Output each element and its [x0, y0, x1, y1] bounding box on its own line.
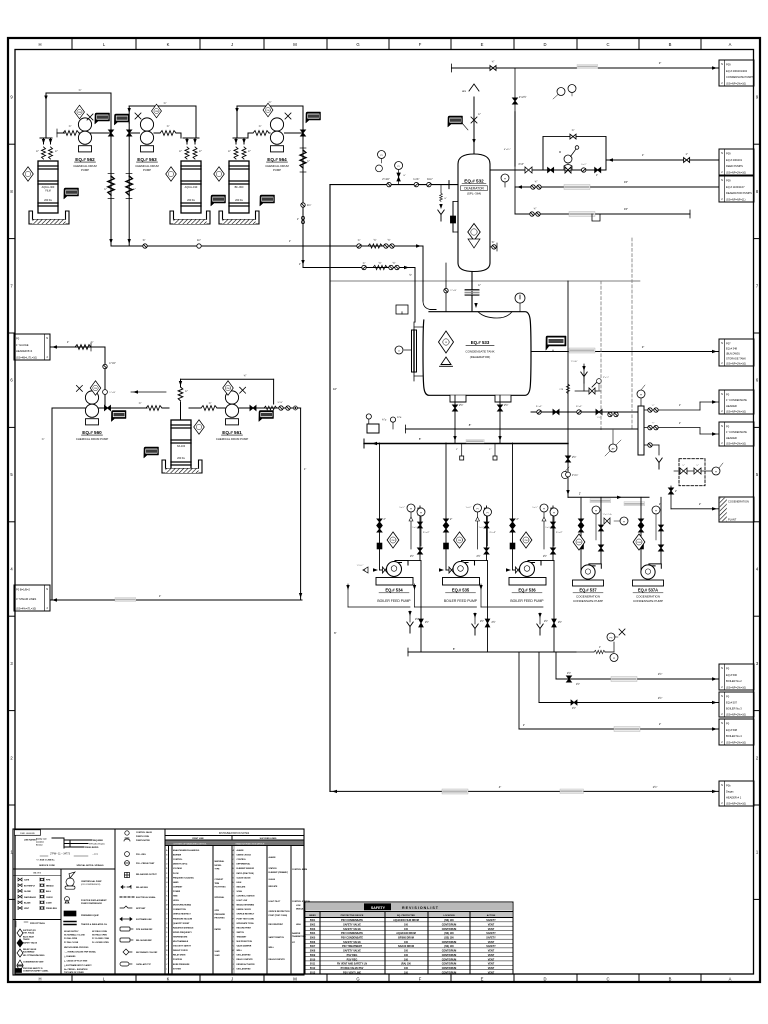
- svg-text:¾"⌀: ¾"⌀: [397, 416, 402, 419]
- svg-text:SAFETY VALVE: SAFETY VALVE: [343, 941, 361, 944]
- svg-text:MIDDLE: MIDDLE: [296, 909, 304, 911]
- svg-text:¼": ¼": [36, 150, 39, 153]
- svg-text:F: F: [419, 976, 422, 981]
- svg-text:HEADER # 1: HEADER # 1: [726, 796, 742, 800]
- pipe: drum NA100 hose: [180, 402, 182, 420]
- svg-text:(SS) 100: (SS) 100: [444, 932, 454, 935]
- svg-text:(SS) 100: (SS) 100: [444, 919, 454, 922]
- tag pump564: [306, 112, 321, 123]
- off-page connector: boiler no.2: [719, 664, 754, 690]
- svg-text:5001: 5001: [310, 919, 316, 922]
- svg-text:⅜": ⅜": [143, 240, 146, 242]
- svg-text:¾": ¾": [244, 375, 247, 378]
- svg-text:1": 1": [489, 449, 491, 451]
- svg-text:CURRENT: CURRENT: [173, 886, 183, 888]
- tag pump561: [259, 411, 274, 422]
- svg-text:200 lbs: 200 lbs: [44, 199, 53, 202]
- hazard diamond pump563: [152, 104, 162, 118]
- off-page connector: cogeneration plant: [719, 497, 754, 522]
- svg-text:RELAY/COMPUTE: RELAY/COMPUTE: [269, 958, 286, 961]
- tag pump560: [112, 411, 127, 422]
- svg-text:2": 2": [517, 518, 519, 521]
- svg-text:EQ.# 532: EQ.# 532: [464, 179, 484, 184]
- recirc loop EQ.# 535: [414, 584, 416, 607]
- drum pump EQ.# 564: [270, 118, 283, 144]
- svg-text:1": 1": [679, 404, 681, 407]
- svg-text:POSITIVE DISPLACEMENT: POSITIVE DISPLACEMENT: [81, 899, 107, 902]
- svg-text:NO AIR SUPPLY: NO AIR SUPPLY: [64, 930, 79, 933]
- svg-text:TEMPERATURE: TEMPERATURE: [173, 935, 188, 938]
- svg-text:BOILER FEED PUMP: BOILER FEED PUMP: [510, 599, 544, 603]
- svg-text:4": 4": [499, 785, 501, 789]
- svg-text:SAFETY: SAFETY: [486, 932, 496, 935]
- pipe: vertical to steam line header: [297, 407, 300, 409]
- svg-text:100: 100: [404, 950, 409, 953]
- svg-text:5004: 5004: [310, 932, 316, 935]
- svg-text:¾": ¾": [307, 160, 310, 163]
- svg-text:COGENERATION: COGENERATION: [728, 500, 749, 504]
- svg-text:H: H: [38, 976, 41, 981]
- svg-text:¾": ¾": [167, 125, 170, 128]
- svg-text:¾": ¾": [358, 239, 361, 242]
- svg-text:ANALYSIS/MISCELLANEOUS: ANALYSIS/MISCELLANEOUS: [173, 849, 200, 852]
- svg-text:(SPL–364): (SPL–364): [467, 192, 481, 196]
- svg-text:G: G: [356, 976, 359, 981]
- svg-text:ORIFICE RESTRICT: ORIFICE RESTRICT: [173, 914, 191, 916]
- svg-text:2": 2": [450, 518, 452, 521]
- svg-text:Degas: Degas: [726, 790, 734, 794]
- pipe: chem injection line y246: [111, 245, 423, 247]
- svg-text:¾": ¾": [363, 262, 366, 265]
- pipe: riser from manifold to y281 line: [567, 281, 569, 497]
- svg-text:(SS=NP=2%=10): (SS=NP=2%=10): [726, 362, 746, 366]
- svg-text:AQUA–190: AQUA–190: [185, 186, 198, 189]
- svg-text:L: L: [166, 900, 167, 902]
- svg-text:P0: P0: [726, 695, 730, 699]
- svg-text:GLOBE: GLOBE: [24, 891, 31, 893]
- svg-text:M: M: [559, 151, 561, 154]
- svg-text:(SS=NP=2%=10): (SS=NP=2%=10): [726, 741, 746, 745]
- svg-text:FIRST LINE: FIRST LINE: [192, 838, 204, 840]
- pipe: lower leg EQ.# 535: [487, 561, 489, 653]
- svg-text:(SS=4B=L/TL=10): (SS=4B=L/TL=10): [16, 356, 37, 360]
- deaerator level standpipe: [452, 202, 454, 233]
- svg-text:CENTRIFUGAL PUMP: CENTRIFUGAL PUMP: [81, 880, 102, 883]
- vessel EQ532 deaerator: [458, 154, 490, 272]
- svg-text:FLOW: FLOW: [173, 873, 179, 875]
- svg-text:P0b: P0b: [726, 784, 731, 788]
- svg-text:SAFETY VALVE: SAFETY VALVE: [343, 950, 361, 953]
- tag drum3: [260, 195, 275, 206]
- drum pump EQ.# 561: [225, 391, 238, 417]
- svg-text:CONT/DRUM: CONT/DRUM: [442, 924, 457, 927]
- tag drum1: [64, 188, 79, 199]
- svg-text:DIFFERENTIAL: DIFFERENTIAL: [237, 863, 251, 866]
- pipe: discharge riser EQ.# 534: [408, 560, 420, 562]
- svg-text:N: N: [721, 666, 723, 670]
- svg-text:BF/800 DRUM: BF/800 DRUM: [398, 937, 414, 940]
- hazard diamond pump562: [75, 105, 85, 119]
- svg-text:5007: 5007: [310, 945, 316, 948]
- tag deaerator vent: [448, 116, 463, 127]
- svg-text:SAFETY/SWITCH: SAFETY/SWITCH: [269, 936, 285, 939]
- svg-text:PUMP: PUMP: [81, 168, 89, 172]
- pipe: thin line y281: [330, 280, 640, 282]
- svg-text:2": 2": [523, 724, 525, 727]
- svg-text:P09: P09: [726, 152, 731, 156]
- svg-text:1¼×1": 1¼×1": [576, 405, 583, 408]
- pipe: group2 suction w dampener: [154, 132, 160, 134]
- svg-text:EQ.# 200/201/202: EQ.# 200/201/202: [726, 69, 748, 73]
- pipe: tank bottom nozzle 2: [499, 395, 501, 443]
- svg-text:¾": ¾": [572, 129, 575, 132]
- svg-text:SWITCH: SWITCH: [237, 932, 245, 934]
- svg-text:PLANT: PLANT: [728, 518, 737, 522]
- svg-text:BOILER No.2: BOILER No.2: [726, 679, 742, 683]
- grid reference band ticks and labels: [72, 38, 701, 982]
- svg-text:N: N: [46, 587, 48, 591]
- svg-text:RATIO (FRACTION): RATIO (FRACTION): [237, 872, 255, 875]
- svg-text:AQUA/190 DRUM: AQUA/190 DRUM: [396, 932, 416, 935]
- hazard diamond pump561: [223, 381, 234, 395]
- svg-text:PRESSURE VACUUM: PRESSURE VACUUM: [173, 917, 193, 920]
- hazard diamond drum NA100: [194, 420, 205, 434]
- svg-text:No. PRESS L: ELEVATION: No. PRESS L: ELEVATION: [64, 968, 88, 971]
- hazard diamond pump560: [90, 381, 101, 395]
- off-page connector: deaerator pumps: [719, 176, 754, 202]
- svg-text:CONT/DRUM: CONT/DRUM: [442, 958, 457, 961]
- svg-text:5008: 5008: [310, 950, 316, 953]
- svg-text:⅜": ⅜": [444, 198, 447, 200]
- svg-text:MOISTURE (HUMID): MOISTURE (HUMID): [173, 905, 191, 907]
- svg-text:CONDENSATE PUMPS: CONDENSATE PUMPS: [726, 75, 754, 79]
- svg-text:CONSERVATION VENT: CONSERVATION VENT: [23, 961, 44, 964]
- gauge between cogen pumps: [614, 520, 620, 522]
- svg-text:¾": ¾": [259, 125, 262, 128]
- svg-text:6": 6": [334, 631, 337, 635]
- pipe: elbow to cogen pumps: [566, 456, 571, 462]
- svg-text:VENT: VENT: [24, 908, 30, 910]
- svg-text:1": 1": [159, 594, 161, 598]
- deaerator PI gauge left: [378, 151, 386, 159]
- svg-text:BLDG HEAT: BLDG HEAT: [23, 935, 35, 938]
- svg-text:P0: P0: [726, 722, 730, 726]
- svg-text:EQ.# 536: EQ.# 536: [518, 588, 536, 593]
- svg-text:N: N: [721, 424, 723, 428]
- svg-text:TRACE: TRACE: [23, 938, 30, 941]
- svg-text:ORIFICE RESTRICTION: ORIFICE RESTRICTION: [269, 911, 291, 913]
- riser x129 group2 to injection line: [128, 123, 130, 246]
- tank level transmitter: [404, 349, 412, 351]
- svg-text:TRACED & INSULATED OIL: TRACED & INSULATED OIL: [81, 923, 108, 926]
- svg-text:SAFETY: SAFETY: [486, 937, 496, 940]
- svg-text:RELAY DRIVE: RELAY DRIVE: [173, 954, 186, 957]
- pipe: group1 suction w dampener: [57, 132, 65, 134]
- dashed verticals right: [600, 281, 602, 430]
- svg-text:INDEX: INDEX: [309, 915, 316, 917]
- svg-text:RELIEF VALVE: RELIEF VALVE: [23, 948, 37, 951]
- svg-text:UNCLASSIFIED: UNCLASSIFIED: [237, 954, 252, 957]
- svg-text:NC NORMALLY CLOSE: NC NORMALLY CLOSE: [64, 934, 86, 937]
- svg-text:¾"Ⅲ: ¾"Ⅲ: [559, 388, 564, 391]
- hazard diamond EQ.# 537A: [633, 534, 645, 550]
- svg-text:TRANSMIT: TRANSMIT: [237, 935, 248, 938]
- svg-text:15": 15": [624, 180, 628, 184]
- off-page connector: feed pumps: [719, 149, 754, 175]
- svg-text:SETPOINT: SETPOINT: [136, 908, 146, 910]
- svg-text:5006: 5006: [310, 941, 316, 944]
- svg-text:SCAN: SCAN: [237, 890, 243, 893]
- off-page connector: condensate pumps (top right): [719, 60, 754, 86]
- svg-text:USERS CHOICE: USERS CHOICE: [237, 909, 252, 911]
- svg-text:N: N: [721, 783, 723, 787]
- svg-text:BORE PRESSURE: BORE PRESSURE: [173, 964, 190, 966]
- tank saddles: [450, 395, 511, 402]
- off-page connector: boiler no.4: [719, 719, 754, 745]
- off-page connector: condensate header 2: [719, 422, 754, 446]
- svg-text:¼": ¼": [248, 150, 251, 153]
- svg-text:¾": ¾": [78, 88, 81, 92]
- svg-text:SAFETY: SAFETY: [371, 906, 386, 910]
- svg-text:1" CONDENSATE: 1" CONDENSATE: [726, 398, 747, 402]
- svg-text:BLADE: BLADE: [24, 902, 31, 905]
- hazard diamond EQ.# 537: [573, 534, 585, 550]
- svg-text:CONT/DRUM: CONT/DRUM: [442, 950, 457, 953]
- svg-text:PSV CONDENSATE: PSV CONDENSATE: [341, 937, 363, 940]
- svg-text:NO FIELD OPEN: NO FIELD OPEN: [92, 935, 107, 937]
- svg-text:(BLN.DWD): (BLN.DWD): [726, 352, 740, 356]
- svg-text:(SS=NP=2%=10): (SS=NP=2%=10): [726, 713, 746, 717]
- svg-text:FILM: FILM: [45, 191, 50, 193]
- svg-text:SAFETY VALVE: SAFETY VALVE: [23, 942, 38, 945]
- svg-text:L: L: [233, 900, 234, 902]
- svg-text:CONTROL: CONTROL: [237, 859, 247, 861]
- pump EQ.# 537A: [641, 564, 661, 579]
- svg-text:EQ.# 563: EQ.# 563: [137, 157, 157, 162]
- svg-text:|—•| EDGE OF PLOT ITEM: |—•| EDGE OF PLOT ITEM: [64, 961, 88, 963]
- svg-text:PSV—PRESS POINT: PSV—PRESS POINT: [136, 863, 155, 865]
- deaerator internal spray diamond: [468, 224, 480, 241]
- svg-text:J: J: [233, 891, 234, 893]
- svg-text:OTH. FIELD): OTH. FIELD): [23, 933, 35, 935]
- svg-text:DENSITY (SP.G): DENSITY (SP.G): [173, 864, 188, 866]
- svg-text:STORAGE TANK: STORAGE TANK: [726, 357, 746, 361]
- drum pump EQ.# 562: [78, 118, 91, 144]
- drum EQ562 AQUA-300: [38, 161, 58, 213]
- deaerator bottom right nozzle: [490, 246, 497, 248]
- svg-text:PRESSURE: PRESSURE: [215, 914, 226, 916]
- containment basin 3: [219, 211, 259, 224]
- svg-text:C: C: [606, 976, 609, 981]
- svg-text:N: N: [721, 341, 723, 345]
- off-page connector: gauge header (left): [14, 334, 50, 360]
- svg-text:HIGH: HIGH: [296, 924, 301, 926]
- strainer assembly above manifold: [583, 364, 585, 376]
- pipe: sample line to cogeneration plant: [671, 508, 719, 510]
- legend: instrument symbol list column: [120, 831, 134, 966]
- svg-text:FL LOCKED OPEN: FL LOCKED OPEN: [92, 942, 109, 944]
- svg-text:ELECTRICAL SIGNAL: ELECTRICAL SIGNAL: [136, 896, 156, 899]
- svg-text:¾": ¾": [268, 100, 271, 104]
- svg-text:Location: Location: [36, 841, 45, 844]
- svg-text:¾×⅜": ¾×⅜": [413, 178, 419, 181]
- svg-text:G: G: [356, 42, 359, 47]
- svg-text:TYPE: TYPE: [215, 869, 221, 871]
- svg-text:1100: 1100: [637, 542, 641, 544]
- gauges EQ.# 537A: [655, 514, 657, 540]
- svg-text:8": 8": [419, 437, 421, 441]
- svg-text:¾": ¾": [652, 404, 655, 407]
- svg-text:¼": ¼": [228, 150, 231, 153]
- svg-text:1": 1": [297, 218, 299, 221]
- svg-text:UNCLASSIFIED: UNCLASSIFIED: [237, 967, 252, 970]
- svg-text:SPECIAL (Weight): SPECIAL (Weight): [89, 843, 105, 846]
- svg-text:¾": ¾": [535, 181, 538, 184]
- pipe: lower leg EQ.# 536: [553, 561, 555, 653]
- pipe: lower leg EQ.# 534: [420, 561, 422, 653]
- svg-text:RELAY COMPUTE: RELAY COMPUTE: [237, 958, 254, 961]
- drum NA-100: [171, 420, 191, 472]
- svg-text:1¼": 1¼": [307, 204, 311, 207]
- pipe: group2 drum hoses: [185, 139, 188, 144]
- svg-text:C: C: [606, 42, 609, 47]
- svg-text:1½": 1½": [658, 696, 663, 700]
- svg-text:EQ.# 534: EQ.# 534: [385, 588, 403, 593]
- svg-text:1" CONDENSATE: 1" CONDENSATE: [726, 430, 747, 434]
- off-page connector: blowdown storage tank: [719, 339, 754, 366]
- deaerator vent stack: [473, 97, 475, 154]
- pipe: group3 suction w dampener: [248, 132, 253, 134]
- svg-text:WELL: WELL: [269, 947, 275, 949]
- pump EQ.# 534: [387, 561, 409, 577]
- svg-text:PSV CONDENSATE: PSV CONDENSATE: [341, 932, 363, 935]
- pipe: group1 top header: [46, 92, 111, 94]
- svg-text:1": 1": [642, 153, 644, 157]
- svg-text:¼": ¼": [199, 150, 202, 153]
- svg-text:LEVEL: LEVEL: [173, 900, 180, 902]
- svg-text:S AIR: S AIR: [215, 954, 221, 957]
- pipe: pump560 discharge valve: [98, 407, 147, 409]
- svg-text:5010: 5010: [310, 958, 316, 961]
- svg-text:P&ID LEGEND: P&ID LEGEND: [20, 833, 35, 835]
- pipe: degas header line y791: [330, 790, 719, 792]
- svg-text:DEAERATOR PUMPS: DEAERATOR PUMPS: [726, 191, 752, 195]
- svg-text:5012: 5012: [310, 967, 316, 970]
- hazard diamond drum3: [214, 167, 225, 181]
- svg-text:P09: P09: [726, 179, 731, 183]
- svg-text:PUMP: PUMP: [273, 168, 281, 172]
- svg-text:SECONDARY COIL REF: SECONDARY COIL REF: [136, 951, 158, 954]
- svg-text:BOILER FEED PUMP: BOILER FEED PUMP: [444, 599, 478, 603]
- svg-text:HEADER: HEADER: [726, 436, 737, 440]
- svg-text:1": 1": [599, 647, 601, 649]
- pipe: dead-end line y214: [515, 213, 690, 215]
- svg-text:NC FIELD CONN: NC FIELD CONN: [92, 931, 107, 933]
- svg-text:EQ.# 200/201: EQ.# 200/201: [726, 158, 743, 162]
- svg-text:SPEED FREQUENCY: SPEED FREQUENCY: [173, 932, 193, 934]
- svg-text:EQ.# 537: EQ.# 537: [579, 588, 597, 593]
- svg-text:FLEX/BRAID: FLEX/BRAID: [23, 951, 35, 954]
- svg-text:N: N: [721, 151, 723, 155]
- svg-text:CONNECTION: CONNECTION: [173, 909, 186, 911]
- svg-text:AQUA/300 FILM DRUM: AQUA/300 FILM DRUM: [393, 919, 419, 922]
- recirc loop EQ.# 534: [347, 584, 349, 607]
- svg-text:INTEGRAL: INTEGRAL: [215, 896, 226, 899]
- pipe: line to boiler2 y679: [556, 678, 719, 680]
- svg-text:NR. FITTINGS/PACKING: NR. FITTINGS/PACKING: [23, 954, 45, 957]
- svg-text:¼": ¼": [179, 150, 182, 153]
- pipe: group3 drum hoses: [233, 137, 248, 139]
- tag tank outlet: [546, 336, 566, 350]
- svg-text:EQ.# 562: EQ.# 562: [75, 157, 95, 162]
- column branch 3 to drain: [644, 444, 659, 446]
- svg-text:2½": 2½": [572, 455, 576, 459]
- svg-text:EQ.# 561: EQ.# 561: [222, 430, 242, 435]
- svg-text:DRIVER ACTUATOR: DRIVER ACTUATOR: [237, 963, 256, 966]
- svg-text:W: W: [232, 950, 234, 952]
- svg-text:POWER: POWER: [173, 891, 181, 893]
- svg-text:CONTROL ELEM: CONTROL ELEM: [292, 869, 308, 871]
- svg-text:¾"×⅜": ¾"×⅜": [109, 391, 116, 394]
- svg-text:SYSTEM: SYSTEM: [173, 968, 181, 970]
- svg-text:¾": ¾": [139, 402, 142, 405]
- svg-text:100: 100: [404, 954, 409, 957]
- pump563 motor symbol: [135, 113, 141, 119]
- svg-text:PROCESS SAFETY IS: PROCESS SAFETY IS: [23, 967, 43, 970]
- svg-text:ALARM: ALARM: [237, 849, 244, 852]
- drip legs under header: [461, 444, 463, 457]
- svg-text:¾": ¾": [682, 464, 685, 467]
- pipe: discharge riser EQ.# 535: [475, 560, 487, 562]
- svg-text:CHEMICAL DRUM PUMP: CHEMICAL DRUM PUMP: [76, 437, 109, 441]
- svg-text:P0: P0: [16, 337, 20, 341]
- svg-text:PSV CONDENSATE: PSV CONDENSATE: [341, 919, 363, 922]
- svg-text:EQ.# 535: EQ.# 535: [452, 588, 470, 593]
- svg-text:REL BACKED OUTPUT: REL BACKED OUTPUT: [136, 873, 158, 876]
- pipe: discharge riser EQ.# 537: [600, 497, 602, 563]
- svg-text:E: E: [481, 976, 484, 981]
- svg-text:VISCOSITY SAFETY: VISCOSITY SAFETY: [173, 945, 192, 948]
- tag drum NA100: [144, 447, 159, 458]
- svg-text:FEED PUMPS: FEED PUMPS: [726, 164, 743, 168]
- svg-text:¼"×⅛": ¼"×⅛": [571, 360, 578, 363]
- pipe: min flow arrows into pumps: [373, 568, 378, 571]
- svg-text:5005: 5005: [310, 937, 316, 940]
- svg-text:SOFTWARE LINK: SOFTWARE LINK: [136, 918, 152, 921]
- svg-text:VALVES: VALVES: [33, 872, 42, 875]
- svg-text:WEIGHT FORCE: WEIGHT FORCE: [173, 950, 188, 952]
- pump564 motor symbol: [285, 113, 291, 119]
- svg-text:5009: 5009: [310, 954, 316, 957]
- pipe: tank bottom nozzle 1: [454, 395, 456, 443]
- svg-text:S AIR: S AIR: [215, 950, 221, 953]
- containment basin 1: [29, 211, 69, 224]
- svg-text:CONT/DRUM: CONT/DRUM: [442, 941, 457, 944]
- svg-text:N: N: [721, 62, 723, 66]
- svg-text:DIAPHRAGM: DIAPHRAGM: [24, 896, 36, 899]
- pipe: sample line y429: [406, 428, 639, 430]
- svg-text:EQ. PROTECTED: EQ. PROTECTED: [397, 915, 415, 917]
- svg-text:AQUA–300: AQUA–300: [42, 186, 55, 189]
- svg-text:REQUIRED: REQUIRED: [93, 840, 104, 842]
- svg-text:4" STEAM LINES: 4" STEAM LINES: [16, 597, 37, 601]
- svg-text:5013: 5013: [310, 971, 316, 974]
- svg-text:8": 8": [469, 423, 471, 427]
- svg-text:P07: P07: [726, 342, 731, 346]
- pipe: pump561 discharge east: [239, 407, 295, 409]
- svg-text:POINT (TEST CONN): POINT (TEST CONN): [269, 915, 288, 917]
- svg-text:200 lbs: 200 lbs: [235, 199, 244, 202]
